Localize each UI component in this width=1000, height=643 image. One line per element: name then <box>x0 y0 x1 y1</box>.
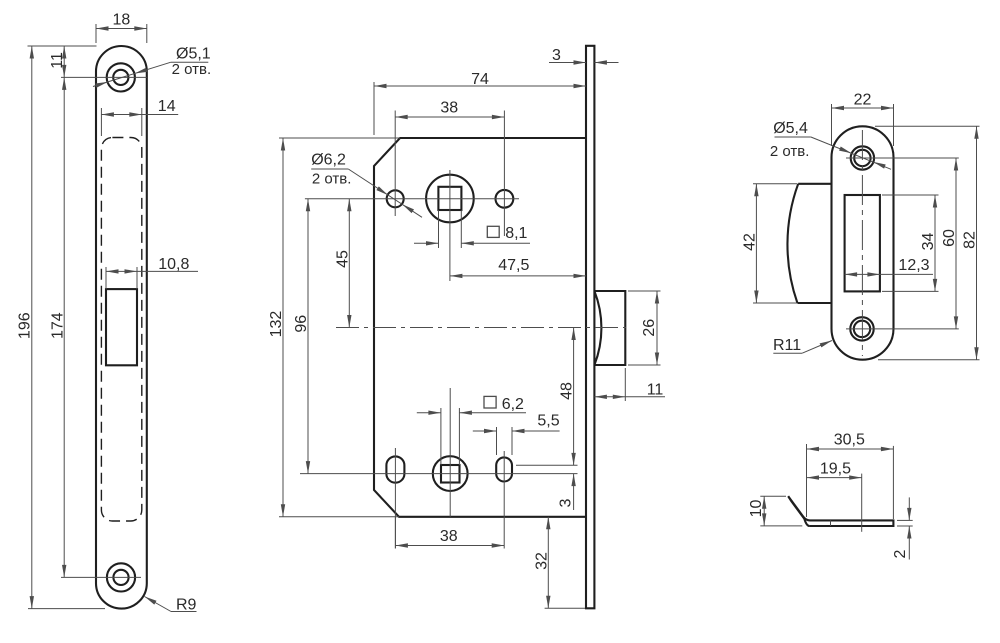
upper left hole vertical centerline / ext for 38 <box>394 111 396 217</box>
lower spindle: circle with square 6.2 <box>433 456 468 491</box>
dimension 14 (recess width) <box>100 108 102 136</box>
svg-text:47,5: 47,5 <box>498 257 529 274</box>
upper hole Ø6.2 left <box>387 190 404 207</box>
dimension 196 (plate length) <box>31 46 33 609</box>
svg-text:26: 26 <box>641 319 658 337</box>
dimension 19,5 (bend to window axis) <box>861 474 863 532</box>
middle view: latch bolt 11x26 with curved face <box>594 291 625 365</box>
svg-text:38: 38 <box>440 528 458 545</box>
svg-text:32: 32 <box>533 552 550 570</box>
svg-text:10: 10 <box>748 500 765 518</box>
svg-text:5,5: 5,5 <box>537 413 559 430</box>
section: flat bar 2 thick with bent lip <box>810 520 894 526</box>
left view: top hole centerline <box>61 76 147 78</box>
svg-text:96: 96 <box>293 315 310 333</box>
dimension 10,8 (latch opening width) <box>105 267 107 289</box>
svg-text:22: 22 <box>854 92 872 109</box>
dimension 74 (case width) <box>373 82 375 135</box>
svg-text:6,2: 6,2 <box>502 396 524 413</box>
strike window rectangle 12.3x34 <box>845 195 880 291</box>
lower square vertical centerline <box>449 388 451 517</box>
dimension 45 (upper holes to axis) <box>348 199 350 328</box>
lower slot upper-arc line (for dim 3) <box>516 464 578 466</box>
upper holes centerline horizontal <box>305 198 519 200</box>
extension line case top <box>279 137 400 139</box>
lower right slot vertical centerline / ext for 38 <box>503 451 505 549</box>
svg-text:11: 11 <box>647 382 664 399</box>
svg-text:48: 48 <box>559 382 576 400</box>
dimension 5,5 (slot width) outside arrows <box>496 427 498 455</box>
left view: extension line plate bottom <box>28 608 105 610</box>
svg-text:10,8: 10,8 <box>158 256 189 273</box>
svg-text:3: 3 <box>558 498 575 507</box>
dimension 48 (axis to slot line) <box>573 328 575 466</box>
dimension 18 (plate width) <box>95 24 97 43</box>
section: lip/plate seam tick <box>830 520 832 526</box>
dimension 38 lower (hole spacing) <box>394 517 396 549</box>
left view: bottom hole centerline <box>61 576 141 578</box>
dimension 34 (window height) <box>882 194 939 196</box>
svg-text:8,1: 8,1 <box>505 225 527 242</box>
svg-text:45: 45 <box>334 250 351 268</box>
left view: extension line plate top <box>28 45 97 47</box>
middle view: lock case outline 74x132 with chamfered left corners <box>374 138 586 517</box>
strike bottom hole Ø5.4 countersunk <box>850 317 873 340</box>
lower slot right (5.5 x 8.5) <box>496 457 512 481</box>
lower left slot vertical centerline / ext for 38 <box>394 448 396 549</box>
svg-text:R11: R11 <box>773 337 801 354</box>
dimension 3 (faceplate thickness) outside arrows <box>549 62 586 64</box>
svg-text:Ø5,4: Ø5,4 <box>773 120 808 137</box>
strike bottom hole centerline / ext for 60 <box>846 328 959 330</box>
svg-text:18: 18 <box>113 12 131 29</box>
svg-text:132: 132 <box>268 311 285 338</box>
left view: top screw hole Ø5.1 countersunk <box>107 63 135 91</box>
svg-text:2 отв.: 2 отв. <box>312 170 352 187</box>
svg-text:34: 34 <box>920 233 937 251</box>
dimension 30,5 (bar length) <box>806 444 808 517</box>
dimension 132 (case height) <box>282 138 284 517</box>
dimension 11 (bolt protrusion) <box>624 368 626 401</box>
dimension 174 (hole to hole) <box>63 77 65 577</box>
left view: latch opening rectangle (10.8 wide) <box>106 289 137 365</box>
svg-text:38: 38 <box>440 99 458 116</box>
svg-text:19,5: 19,5 <box>820 461 851 478</box>
dimension 3 (slot offset) outside arrows <box>573 474 575 510</box>
left view: bottom screw hole Ø5.1 countersunk <box>107 563 135 591</box>
svg-text:196: 196 <box>17 312 34 339</box>
strike plate outline (stadium 22x82) <box>832 126 894 359</box>
svg-text:42: 42 <box>741 233 758 251</box>
lower slot left (6.2 x 9.2) <box>386 456 404 482</box>
dimension 2 (thickness) outside arrows <box>897 519 913 521</box>
strike top hole centerline / ext for 60 <box>846 157 959 159</box>
svg-text:174: 174 <box>50 312 67 339</box>
middle view: faceplate strip 3 thick <box>586 46 594 609</box>
svg-text:12,3: 12,3 <box>898 257 929 274</box>
spindle hole: circle with square 8.1 <box>426 175 474 223</box>
lock axis dash-dot centerline <box>336 327 626 329</box>
dimension 11 (top hole offset) <box>63 46 65 77</box>
extension line case bottom <box>279 516 399 518</box>
svg-text:60: 60 <box>941 229 958 247</box>
dimension 22 (strike width) <box>831 104 833 146</box>
svg-text:2: 2 <box>892 549 909 558</box>
svg-text:2 отв.: 2 отв. <box>172 61 212 78</box>
svg-text:30,5: 30,5 <box>834 432 865 449</box>
svg-text:3: 3 <box>552 47 561 64</box>
dimension 26 (bolt height) <box>628 290 661 292</box>
svg-text:82: 82 <box>962 231 979 249</box>
dimension 42 (wing height) <box>753 183 797 185</box>
dimension 38 upper (hole spacing) <box>395 116 504 118</box>
dimension 12,3 (window width) <box>845 273 933 275</box>
svg-text:Ø6,2: Ø6,2 <box>311 152 346 169</box>
dimension square 6.2 (lower spindle) outside arrows <box>440 408 442 465</box>
dimension 96 (upper to lower holes) <box>307 199 309 474</box>
lower holes centerline horizontal <box>300 473 578 475</box>
dimension 47,5 (spindle to faceplate) <box>450 275 586 277</box>
svg-text:11: 11 <box>49 52 66 69</box>
strike top hole Ø5.4 countersunk <box>851 146 874 169</box>
strike plate curved wing/lip <box>798 183 831 185</box>
strike vertical centerline <box>861 130 863 356</box>
dimension 82 (strike length) <box>875 125 980 127</box>
dimension square 8.1 (spindle) outside arrows <box>438 210 440 248</box>
svg-text:2 отв.: 2 отв. <box>770 143 810 160</box>
upper hole right <box>496 190 514 208</box>
left view: hidden mortise recess outline (dashed 14 wide) <box>101 138 141 522</box>
spindle vertical centerline <box>449 170 451 281</box>
svg-text:R9: R9 <box>176 597 197 614</box>
dimension 32 (case bottom to faceplate end) <box>545 607 585 609</box>
upper right hole vertical centerline / ext for 38 <box>503 111 505 237</box>
svg-text:14: 14 <box>158 98 176 115</box>
dimension 10 (lip rise) <box>760 495 786 497</box>
dimension 60 (hole spacing) <box>955 158 957 329</box>
svg-text:74: 74 <box>471 71 489 88</box>
left view: faceplate outline (stadium 18x196, R9 corners) <box>96 46 147 609</box>
